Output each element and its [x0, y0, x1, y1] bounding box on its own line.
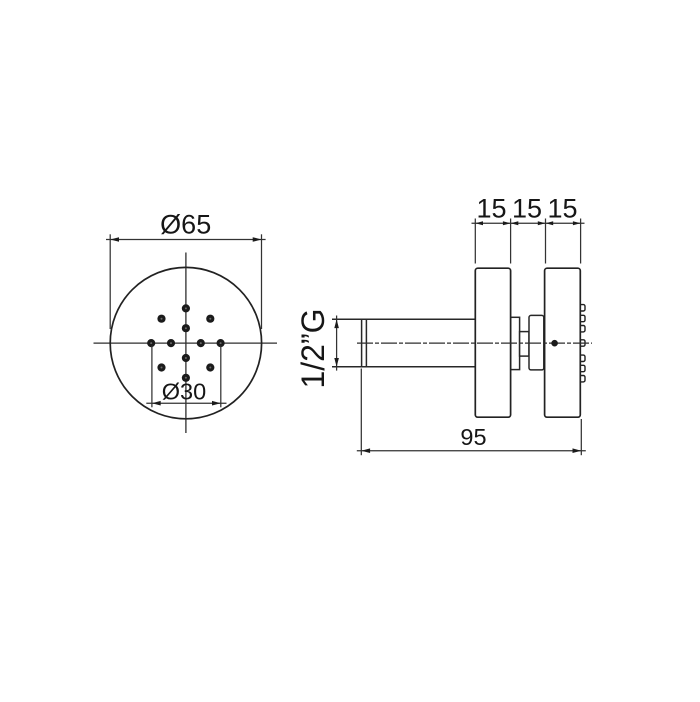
side view: inlet pipe bottom edge with extension — [332, 366, 475, 368]
svg-text:15: 15 — [476, 194, 506, 224]
dimension 1/2"G: label (rotated) — [295, 308, 331, 388]
dimension 95: arrowheads — [361, 448, 581, 453]
side view: step ring — [520, 332, 529, 357]
side view: dashed centerline — [357, 342, 592, 344]
side view: inlet pipe top edge with extension — [332, 318, 475, 320]
dimension Ø30: arrowheads — [152, 401, 221, 406]
dimension 15/15/15: labels — [476, 194, 577, 224]
svg-text:15: 15 — [547, 194, 577, 224]
svg-text:1/2”G: 1/2”G — [295, 308, 331, 388]
nozzle dots: inner ring r15 — [167, 324, 205, 362]
front view: vertical centerline — [185, 253, 187, 434]
dimension 15/15/15: dimension line — [472, 222, 585, 224]
dimension 15/15/15: arrowheads — [475, 221, 580, 225]
svg-text:Ø30: Ø30 — [162, 379, 206, 405]
dimension Ø30: extension lines — [152, 346, 221, 408]
side view: head body — [545, 268, 581, 417]
dimension Ø30: label — [162, 379, 206, 405]
front view: horizontal centerline — [94, 342, 278, 344]
dimension 95: label — [460, 424, 486, 450]
dimension 95: dimension line — [357, 450, 586, 452]
svg-text:Ø65: Ø65 — [160, 209, 211, 239]
svg-text:15: 15 — [512, 194, 542, 224]
dimension Ø30: dimension line — [146, 402, 226, 404]
dimension 15/15/15: extension lines — [475, 219, 580, 264]
side view: nozzle bumps on head face — [580, 305, 585, 382]
side view: wall flange plate — [475, 268, 510, 417]
dimension 95: extension lines — [361, 369, 581, 456]
dimension Ø65: arrowheads — [110, 237, 261, 242]
nozzle dot highlights — [150, 307, 221, 378]
dimension Ø65: label — [160, 209, 211, 239]
svg-text:95: 95 — [460, 424, 486, 450]
dimension 1/2"G: dimension line — [336, 316, 338, 371]
dimension 1/2"G: arrowheads — [334, 319, 339, 367]
side view: body piece — [529, 315, 544, 370]
side view: center nozzle dot — [551, 340, 558, 347]
dimension Ø65: extension lines — [110, 234, 261, 329]
side view: pipe end face — [362, 319, 367, 367]
front view: face circle Ø65 — [110, 267, 261, 418]
side view: collar behind flange — [511, 317, 520, 369]
nozzle dots: outer ring r34.7 — [147, 304, 225, 382]
dimension Ø65: dimension line — [106, 239, 266, 241]
